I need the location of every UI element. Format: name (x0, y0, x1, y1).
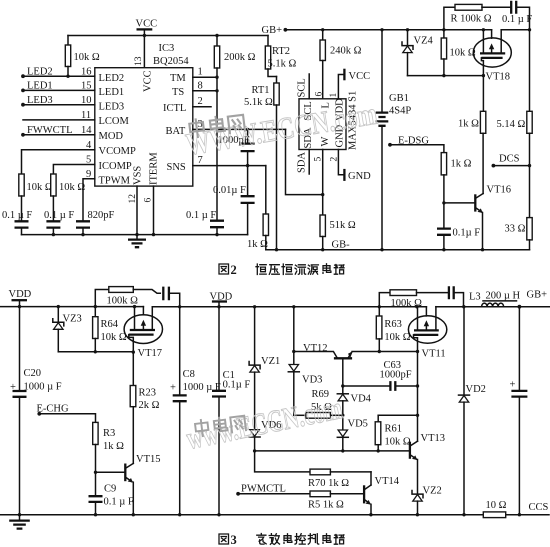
svg-text:5: 5 (86, 155, 91, 166)
capacitor 0.1uF (ICOMP) (44, 210, 74, 235)
wire ground rail under chip (22, 234, 248, 236)
wire LCOM pin11 (23, 119, 95, 121)
svg-text:VSS: VSS (133, 166, 144, 185)
svg-text:VD2: VD2 (466, 384, 486, 395)
transistor VT12 (NPN, base down) (294, 343, 418, 386)
svg-text:10k Ω: 10k Ω (384, 332, 410, 343)
svg-text:R3: R3 (103, 428, 115, 439)
node GB+ (518, 290, 548, 309)
svg-text:200k Ω: 200k Ω (224, 52, 256, 63)
svg-text:200 µ H: 200 µ H (486, 291, 521, 302)
svg-text:GB+: GB+ (262, 25, 283, 36)
wire TM pin1 (193, 76, 217, 78)
resistor R3 1k (39, 414, 124, 473)
node PWMCTL terminal (236, 484, 286, 496)
capacitor 0.1uF (VCOMP) (2, 210, 32, 235)
resistor 10k (VT18 gate) (441, 30, 476, 76)
resistor R5 1k (238, 491, 364, 511)
capacitor 0.01uF (213, 166, 255, 235)
svg-text:1: 1 (198, 67, 203, 78)
svg-text:SCL: SCL (296, 78, 307, 97)
op-amp? no: IC3 BQ2054 chip body (95, 43, 193, 186)
svg-text:GB-: GB- (332, 240, 351, 251)
svg-text:8: 8 (198, 81, 203, 92)
svg-text:SNS: SNS (167, 162, 186, 173)
svg-text:14: 14 (81, 125, 92, 136)
svg-text:0.1µ F: 0.1µ F (453, 228, 481, 239)
wire LED1 pin15 (23, 89, 95, 91)
svg-text:LCOM: LCOM (99, 116, 130, 127)
svg-text:VT18: VT18 (486, 72, 511, 83)
battery GB1 4S4P (376, 30, 412, 250)
resistor 1k (E-DSG) (390, 145, 472, 229)
wire GB+ rail (285, 29, 491, 31)
wire GB+ line (right section) (436, 306, 550, 308)
node C63/VT11 drain column (416, 384, 419, 387)
svg-text:VT16: VT16 (487, 185, 512, 196)
node VT11 drain (416, 350, 419, 353)
svg-text:2: 2 (329, 157, 339, 162)
resistor 200k (214, 34, 255, 221)
capacitor + (output, right) (510, 307, 528, 515)
node GB+ terminal (262, 25, 288, 36)
transistor VT18 (P-MOSFET) (473, 30, 511, 83)
svg-text:16: 16 (81, 67, 92, 78)
wire top-left rail (68, 35, 268, 37)
svg-text:LED2: LED2 (27, 67, 53, 78)
svg-text:1000 µ F: 1000 µ F (24, 382, 62, 393)
node gate line junction (528, 28, 531, 31)
capacitor 0.1uF (BAT decouple) (186, 210, 224, 235)
svg-text:11: 11 (81, 110, 91, 121)
svg-text:820pF: 820pF (88, 210, 115, 221)
svg-text:5.1k Ω: 5.1k Ω (268, 59, 297, 70)
transistor VT13 (NPN) (410, 433, 445, 494)
resistor R69 5k (294, 389, 343, 418)
resistor R64 10k (93, 305, 127, 352)
svg-text:VD5: VD5 (348, 419, 368, 430)
transistor VT14 (NPN) (364, 472, 400, 515)
resistor 51k (320, 215, 356, 250)
svg-text:10k Ω: 10k Ω (450, 48, 476, 59)
capacitor C9 0.1uF (89, 472, 134, 514)
node VT18 drain (482, 74, 485, 77)
svg-text:VD3: VD3 (302, 375, 322, 386)
svg-text:VZ3: VZ3 (63, 314, 82, 325)
capacitor 0.1uF (top-right) (502, 1, 532, 30)
svg-text:1: 1 (329, 93, 339, 98)
svg-text:10k Ω: 10k Ω (59, 182, 85, 193)
svg-text:R5 1k Ω: R5 1k Ω (308, 500, 344, 511)
svg-text:GB1: GB1 (389, 93, 409, 104)
svg-text:VZ1: VZ1 (261, 356, 280, 367)
svg-text:2: 2 (231, 263, 237, 277)
svg-text:0.1 µ F: 0.1 µ F (2, 210, 32, 221)
svg-text:LED2: LED2 (99, 73, 125, 84)
svg-text:ICTL: ICTL (163, 103, 186, 114)
svg-text:10k Ω: 10k Ω (27, 182, 53, 193)
capacitor C1 0.1uF (212, 307, 250, 515)
svg-text:10k Ω: 10k Ω (74, 52, 100, 63)
svg-text:C9: C9 (104, 484, 116, 495)
transistor VT11 (P-MOSFET) (408, 305, 446, 359)
svg-text:RT2: RT2 (272, 46, 290, 57)
svg-text:0.1 µ F: 0.1 µ F (186, 210, 216, 221)
svg-text:33 Ω: 33 Ω (505, 224, 526, 235)
capacitor 0.1uF (VT16 base) (437, 228, 480, 250)
svg-text:VCOMP: VCOMP (99, 146, 137, 157)
resistor 100k (VT11 gate, horizontal) (379, 290, 449, 309)
pin 2 / GND wire to GND tap (329, 124, 371, 182)
resistor 10k (VCOMP) (19, 174, 53, 221)
inductor L3 200uH (469, 291, 521, 307)
capacitor C8 1000uF (170, 305, 221, 515)
svg-text:5.1k Ω: 5.1k Ω (244, 97, 273, 108)
svg-text:LED1: LED1 (27, 81, 53, 92)
transistor VT15 (NPN) (125, 454, 160, 515)
node VD6 to base line (253, 449, 256, 452)
resistor 1k (VT18 drain) (458, 76, 486, 194)
diode VD2 (459, 307, 486, 515)
transistor VT16 (NPN) (475, 185, 511, 250)
wire VZ4 anode to VT18 drain (408, 75, 484, 77)
svg-text:6: 6 (314, 92, 324, 97)
resistor R23 2k (130, 352, 159, 463)
resistor R61 10k (375, 415, 411, 451)
wire VT16 base line (444, 202, 475, 204)
svg-text:10: 10 (81, 95, 92, 106)
svg-text:2k Ω: 2k Ω (139, 400, 160, 411)
VDD power symbol (left) (9, 289, 32, 308)
wire ICOMP pin5 (53, 165, 94, 175)
svg-text:IC3: IC3 (159, 43, 175, 54)
svg-text:FWWCTL: FWWCTL (27, 125, 73, 136)
diode VD5 (337, 415, 368, 451)
svg-text:R 100k Ω: R 100k Ω (451, 14, 492, 25)
node VT17 drain (132, 350, 135, 353)
svg-text:1000pF: 1000pF (380, 370, 412, 381)
svg-text:R70 1k Ω: R70 1k Ω (308, 478, 349, 489)
node LED2 terminal (21, 74, 25, 78)
svg-text:VT15: VT15 (136, 454, 161, 465)
node E-DSG terminal (388, 136, 429, 147)
wire VT11 drain / VT13 collector column (417, 352, 419, 442)
resistor RT1 5.1k (244, 77, 279, 250)
svg-text:1k Ω: 1k Ω (451, 159, 472, 170)
svg-text:ICOMP: ICOMP (99, 161, 132, 172)
svg-text:VCC: VCC (143, 70, 154, 92)
svg-text:10k Ω: 10k Ω (101, 332, 127, 343)
wire bottom rail (0, 514, 549, 516)
resistor 10 ohm (in rail) (483, 500, 506, 518)
resistor R70 1k (308, 469, 371, 489)
svg-text:10 Ω: 10 Ω (486, 500, 507, 511)
svg-text:C8: C8 (183, 369, 195, 380)
svg-text:PWMCTL: PWMCTL (241, 484, 286, 495)
svg-text:BQ2054: BQ2054 (153, 56, 189, 67)
svg-text:GB+: GB+ (527, 290, 548, 301)
svg-text:VDD: VDD (9, 289, 32, 300)
svg-text:E-CHG: E-CHG (37, 404, 69, 415)
svg-text:VT14: VT14 (375, 476, 400, 487)
wire ICTL pin2 stub (193, 106, 211, 108)
resistor 10k (ICOMP) (51, 174, 86, 221)
wire VT18 gate line (501, 29, 529, 31)
svg-text:10k Ω: 10k Ω (385, 437, 411, 448)
resistor R63 10k (376, 305, 410, 351)
wire VDD top rail (left section) (0, 306, 143, 308)
wire VT15 base line (96, 471, 126, 473)
svg-text:R61: R61 (385, 424, 403, 435)
VCC power symbol (top) (136, 19, 158, 68)
node R3/C9/base junction (94, 471, 97, 474)
wire VSS pin12 (136, 186, 138, 235)
svg-text:CCS: CCS (529, 502, 549, 513)
caption 充放电控制电路 text (257, 534, 344, 545)
capacitor (VT11 gate, parallel) (449, 286, 466, 308)
IC MAX5434 body (299, 99, 346, 150)
svg-text:13: 13 (134, 56, 144, 66)
svg-text:1k Ω: 1k Ω (103, 441, 124, 452)
svg-text:240k Ω: 240k Ω (330, 46, 362, 57)
svg-text:4: 4 (86, 140, 92, 151)
svg-text:VCC: VCC (349, 71, 371, 82)
wire VDD top rail (middle section) (152, 306, 426, 308)
svg-text:R23: R23 (139, 388, 157, 399)
wire FWWCTL / MOD pin14 (23, 134, 95, 136)
svg-text:2: 2 (198, 96, 203, 107)
svg-text:VZ2: VZ2 (423, 486, 442, 497)
wire R61 top to drain column (378, 414, 417, 416)
resistor RT2 5.1k (265, 36, 296, 77)
wire VZ3/R64/VT17-drain link (58, 351, 133, 353)
svg-text:VCC: VCC (136, 19, 158, 30)
svg-text:ITERM: ITERM (148, 152, 159, 185)
node: 10k to LED2 line (66, 75, 69, 78)
diode VD3 (288, 365, 322, 416)
wire BAT pin3 (193, 128, 286, 130)
zener diode VZ2 (412, 486, 442, 515)
resistor 33 ohm (505, 218, 533, 250)
svg-text:RT1: RT1 (252, 85, 270, 96)
wire SCL stub (top) (308, 74, 310, 99)
svg-text:4S4P: 4S4P (389, 106, 411, 117)
svg-text:1k Ω: 1k Ω (247, 239, 268, 250)
svg-text:VT11: VT11 (422, 349, 446, 360)
caption 图2 (219, 263, 237, 277)
resistor 10k (top-left pull-up) (65, 36, 100, 77)
wire VCOMP pin4 (22, 150, 95, 174)
svg-text:1k Ω: 1k Ω (458, 119, 479, 130)
transistor VT17 (P-MOSFET) (124, 305, 162, 359)
svg-text:R64: R64 (101, 319, 119, 330)
ground symbol (128, 235, 146, 248)
svg-text:SDA: SDA (296, 152, 307, 173)
wire SDA stub (bottom) (308, 150, 310, 175)
svg-text:9: 9 (86, 169, 91, 180)
resistor 240k (320, 30, 362, 99)
svg-text:0.01µ F: 0.01µ F (213, 185, 246, 196)
svg-text:0.1 µ F: 0.1 µ F (44, 210, 74, 221)
wire GB- rail (266, 249, 530, 251)
svg-text:+: + (10, 382, 16, 393)
resistor 5.14 ohm (497, 30, 533, 218)
caption 恒压恒流源电路 text (256, 264, 344, 275)
node C63 line left (341, 384, 344, 387)
svg-text:+: + (510, 380, 516, 391)
svg-text:R63: R63 (384, 319, 402, 330)
diode VD4 (337, 386, 371, 415)
wire VT13 base line (255, 450, 410, 452)
caption 图3 (219, 533, 237, 547)
diode VD6 (249, 420, 281, 451)
capacitor C20 1000uF (10, 307, 62, 515)
wire TPWM pin9 (83, 179, 95, 222)
svg-text:LED3: LED3 (99, 102, 125, 113)
svg-text:MOD: MOD (99, 131, 124, 142)
svg-text:12: 12 (128, 194, 138, 204)
diode chain VD3 column junction (292, 305, 295, 308)
resistor R 100k (top) (444, 4, 511, 29)
svg-text:TS: TS (172, 87, 184, 98)
svg-text:TM: TM (170, 73, 186, 84)
wire BAT to W (286, 129, 323, 194)
wire VD6 to R70 (255, 451, 310, 472)
wire LED2 pin16 (23, 75, 95, 77)
svg-text:VT17: VT17 (138, 348, 163, 359)
wire SNS pin7 (193, 165, 266, 167)
capacitor C63 1000pF (343, 360, 418, 391)
node DCS terminal (492, 154, 532, 168)
svg-text:VT13: VT13 (421, 433, 446, 444)
watermark 中电网 (bottom) (195, 415, 246, 437)
svg-text:VD4: VD4 (351, 394, 372, 405)
svg-text:3: 3 (231, 533, 237, 547)
svg-text:5.14 Ω: 5.14 Ω (497, 119, 526, 130)
zener diode VZ3 (53, 305, 82, 352)
svg-text:L3: L3 (469, 292, 481, 303)
node: VCC stem joins rail (143, 34, 146, 37)
pin 1 / VDD wire to VCC tap (329, 69, 370, 121)
svg-text:15: 15 (81, 81, 92, 92)
svg-text:C20: C20 (24, 368, 42, 379)
wire LED3 pin10 (23, 104, 95, 106)
node R69 right (341, 414, 344, 417)
svg-text:6: 6 (144, 198, 154, 203)
capacitor 820pF (TPWM) (76, 210, 115, 235)
zener diode VZ1 (249, 305, 280, 430)
svg-text:0.1µ F: 0.1µ F (223, 380, 251, 391)
capacitor (VT17 gate, parallel) (163, 287, 179, 307)
svg-text:100k Ω: 100k Ω (107, 296, 139, 307)
node VT12 emitter / R63 (378, 350, 381, 353)
svg-text:0.1 µ F: 0.1 µ F (104, 497, 134, 508)
wire TS pin8 (193, 90, 217, 92)
resistor 100k (VT17 gate, horizontal) (95, 287, 160, 307)
svg-text:51k Ω: 51k Ω (330, 220, 356, 231)
zener diode VZ4 (402, 30, 433, 76)
wire ITERM pin6 (153, 186, 155, 235)
svg-text:0.1 µ F: 0.1 µ F (502, 14, 532, 25)
svg-text:GND: GND (348, 171, 371, 182)
svg-text:LED1: LED1 (99, 87, 125, 98)
watermark 中电网 (top) (189, 114, 245, 138)
VDD power symbol (middle) (210, 292, 233, 309)
ground symbol (bottom-left) (9, 513, 30, 529)
resistor 1k (SNS) (247, 166, 269, 250)
pin 5 / W wire (314, 137, 331, 216)
svg-text:5: 5 (314, 157, 324, 162)
node E-CHG terminal (37, 404, 69, 416)
svg-text:+: + (170, 383, 176, 394)
svg-text:VT12: VT12 (303, 343, 328, 354)
svg-text:TPWM: TPWM (99, 176, 131, 187)
capacitor 1000pF (218, 129, 255, 165)
svg-text:LED3: LED3 (27, 95, 53, 106)
wire VD3 column (293, 307, 295, 365)
svg-text:VZ4: VZ4 (414, 36, 434, 47)
svg-text:DCS: DCS (499, 154, 520, 165)
